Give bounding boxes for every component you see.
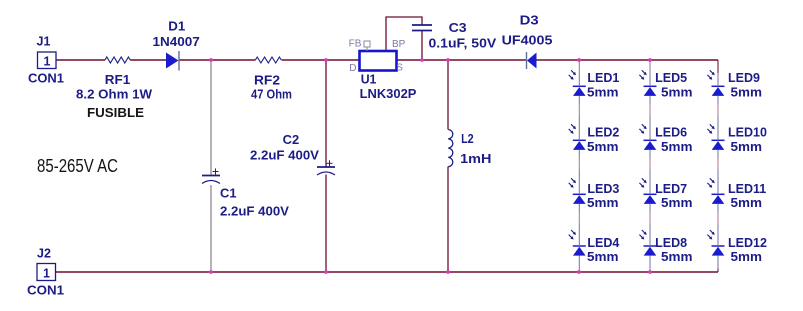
- svg-text:5mm: 5mm: [661, 250, 693, 264]
- svg-text:5mm: 5mm: [661, 140, 693, 154]
- svg-text:5mm: 5mm: [661, 85, 693, 99]
- svg-text:FB: FB: [349, 39, 362, 50]
- svg-text:UF4005: UF4005: [502, 34, 553, 48]
- svg-text:1mH: 1mH: [460, 152, 491, 166]
- svg-text:CON1: CON1: [27, 284, 64, 298]
- svg-text:LED4: LED4: [587, 236, 619, 250]
- svg-text:0.1uF, 50V: 0.1uF, 50V: [429, 37, 497, 51]
- svg-text:LED3: LED3: [587, 182, 619, 196]
- svg-text:5mm: 5mm: [731, 85, 763, 99]
- svg-text:U1: U1: [361, 73, 377, 87]
- svg-text:D3: D3: [520, 14, 539, 28]
- svg-text:5mm: 5mm: [587, 140, 619, 154]
- svg-text:5mm: 5mm: [587, 250, 619, 264]
- svg-text:LED2: LED2: [587, 126, 619, 140]
- svg-text:85-265V AC: 85-265V AC: [37, 156, 118, 176]
- svg-text:2.2uF 400V: 2.2uF 400V: [250, 149, 320, 163]
- svg-text:8.2 Ohm 1W: 8.2 Ohm 1W: [76, 88, 152, 102]
- svg-text:D1: D1: [168, 20, 185, 34]
- svg-text:2.2uF 400V: 2.2uF 400V: [220, 204, 290, 218]
- svg-text:LED5: LED5: [655, 71, 687, 85]
- svg-text:LED10: LED10: [728, 126, 767, 140]
- svg-text:CON1: CON1: [28, 72, 64, 86]
- svg-text:RF1: RF1: [105, 73, 130, 87]
- svg-text:L2: L2: [461, 132, 474, 146]
- svg-text:5mm: 5mm: [731, 250, 763, 264]
- svg-text:LED1: LED1: [587, 71, 619, 85]
- svg-text:1: 1: [44, 55, 51, 69]
- svg-text:5mm: 5mm: [731, 140, 763, 154]
- svg-text:C3: C3: [449, 21, 467, 35]
- svg-text:47 Ohm: 47 Ohm: [251, 88, 292, 102]
- svg-text:1: 1: [43, 267, 50, 281]
- svg-text:LNK302P: LNK302P: [360, 87, 417, 101]
- svg-text:D: D: [349, 63, 356, 74]
- svg-text:LED12: LED12: [728, 236, 767, 250]
- svg-text:C1: C1: [220, 187, 237, 201]
- svg-text:FUSIBLE: FUSIBLE: [87, 106, 144, 120]
- svg-text:5mm: 5mm: [731, 196, 763, 210]
- svg-text:LED6: LED6: [655, 126, 687, 140]
- svg-text:J2: J2: [37, 247, 51, 261]
- svg-text:LED8: LED8: [655, 236, 687, 250]
- svg-text:RF2: RF2: [254, 74, 280, 88]
- svg-text:5mm: 5mm: [587, 196, 619, 210]
- svg-text:LED9: LED9: [728, 71, 760, 85]
- svg-text:5mm: 5mm: [661, 196, 693, 210]
- svg-text:BP: BP: [392, 39, 406, 50]
- svg-text:LED11: LED11: [728, 182, 766, 196]
- svg-text:S: S: [396, 63, 403, 74]
- svg-text:1N4007: 1N4007: [153, 35, 200, 49]
- svg-text:J1: J1: [37, 35, 51, 49]
- svg-text:C2: C2: [283, 133, 300, 147]
- svg-text:LED7: LED7: [655, 182, 687, 196]
- svg-text:5mm: 5mm: [587, 85, 619, 99]
